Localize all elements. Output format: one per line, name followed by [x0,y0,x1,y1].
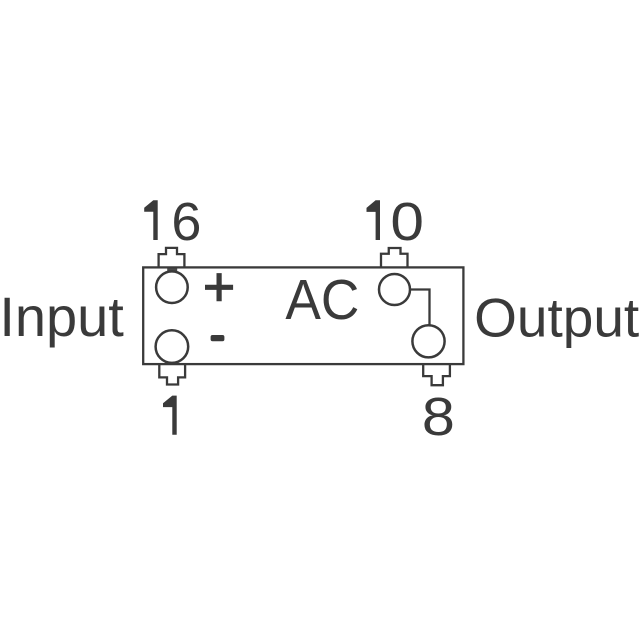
svg-text:Input: Input [0,285,124,348]
svg-text:AC: AC [285,268,359,332]
svg-text:Output: Output [474,287,639,349]
svg-text:6: 6 [171,192,201,252]
svg-text:8: 8 [422,387,455,447]
svg-text:0: 0 [390,192,424,252]
